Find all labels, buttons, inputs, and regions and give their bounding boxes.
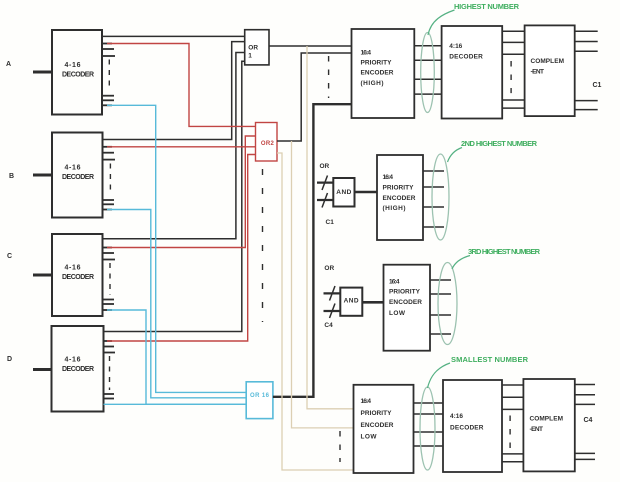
ellipsis dashed left of encoder4 — [339, 431, 341, 462]
svg-text:16:4: 16:4 — [389, 278, 400, 285]
svg-text:SMALLEST NUMBER: SMALLEST NUMBER — [451, 355, 529, 364]
ellipsis dashed row1 between U6 and U7 — [510, 61, 512, 93]
priority encoder U5 (16:4 HIGH, row1) — [352, 29, 415, 118]
complement U12 (row4) — [523, 379, 574, 471]
U4 pin ellipsis dashed — [109, 356, 111, 390]
wire U4 red riser to OR2 input4 — [107, 155, 256, 342]
svg-text:4-16: 4-16 — [65, 165, 81, 172]
bus ellipse row1 — [421, 33, 435, 113]
svg-text:HIGHEST NUMBER: HIGHEST NUMBER — [454, 2, 520, 11]
wire U1 pin1 to OR1 input1 — [102, 35, 245, 37]
decoder U2 (4-16 DECODER, input B) — [52, 133, 103, 218]
svg-text:(HIGH): (HIGH) — [361, 80, 384, 87]
svg-text:C4: C4 — [584, 417, 593, 424]
svg-text:C4: C4 — [324, 322, 333, 329]
bus ellipse row2 — [432, 154, 449, 240]
U1 pin ellipsis dashed — [108, 60, 110, 92]
U2 pin ellipsis dashed — [109, 164, 111, 196]
wire U3 cyan to OR16 input3 — [107, 310, 246, 404]
svg-text:DECODER: DECODER — [62, 274, 94, 281]
input wire D — [33, 368, 52, 371]
wire U1 red to OR2 input1 — [107, 44, 256, 127]
callout curve row2 — [448, 148, 463, 163]
svg-text:1: 1 — [248, 53, 252, 60]
U5 output wires — [414, 46, 441, 94]
wire U2 cyan to OR16 input2 — [107, 210, 246, 398]
svg-text:DECODER: DECODER — [62, 174, 94, 181]
input wire B — [33, 174, 52, 177]
U1 output pin stubs — [102, 44, 115, 106]
wire U2 pin1 riser to OR1 input2 — [103, 42, 245, 140]
wire OR16 output riser to encoder1 — [273, 104, 352, 397]
svg-text:COMPLEM: COMPLEM — [530, 416, 564, 423]
and-gate AND2 — [340, 288, 362, 316]
svg-text:OR: OR — [320, 163, 330, 170]
decoder U6 (4:16, row1) — [442, 26, 503, 119]
wire U2 red to OR2 input3 — [107, 146, 256, 148]
svg-text:AND: AND — [344, 297, 359, 304]
and-gate AND2 input wires with bus slashes — [324, 293, 341, 311]
svg-text:LOW: LOW — [389, 310, 406, 317]
callout curve row1 — [428, 10, 455, 35]
wire AND2 output to encoder U9 — [362, 301, 383, 304]
U7 output wires — [575, 31, 598, 109]
svg-text:ENCODER: ENCODER — [361, 69, 394, 76]
svg-text:OR: OR — [324, 265, 334, 272]
U10 output wires — [414, 403, 443, 446]
decoder U11 (4:16, row4) — [443, 380, 502, 472]
wire U4 pin1 riser to OR1 input4 — [104, 61, 245, 331]
svg-text:PRIORITY: PRIORITY — [361, 59, 393, 66]
wire U3 pin1 riser to OR1 input3 — [103, 53, 245, 239]
ellipsis dashed left of encoder1 — [328, 56, 330, 98]
bus ellipse row4 — [420, 387, 435, 470]
svg-text:PRIORITY: PRIORITY — [389, 289, 421, 296]
svg-text:ENCODER: ENCODER — [361, 422, 394, 429]
wires U11 to complement U12 — [502, 385, 523, 462]
svg-text:B: B — [9, 173, 14, 180]
wire U3 red riser to OR2 input2 — [107, 136, 256, 248]
wire U1 cyan to OR16 input1 — [107, 105, 246, 392]
U2 output pin stubs — [103, 147, 116, 210]
priority encoder U9 (16:4 LOW, row3) — [384, 265, 431, 351]
U8 output stubs — [423, 171, 444, 227]
ellipsis dashed below OR2 (OR3..OR15) — [262, 169, 264, 322]
wire U4 cyan to OR16 input4 — [104, 403, 247, 405]
or-gate OR2 — [256, 123, 278, 162]
svg-text:LOW: LOW — [361, 434, 378, 441]
svg-text:16:4: 16:4 — [383, 174, 394, 181]
tan wire OR2 branch to encoder4 — [292, 141, 354, 428]
svg-text:3RD HIGHEST NUMBER: 3RD HIGHEST NUMBER — [468, 247, 541, 256]
svg-text:16:4: 16:4 — [361, 398, 372, 405]
svg-text:-ENT: -ENT — [531, 69, 545, 76]
svg-text:4-16: 4-16 — [65, 357, 81, 364]
svg-text:4:16: 4:16 — [450, 413, 463, 420]
svg-text:DECODER: DECODER — [62, 366, 94, 373]
svg-text:DECODER: DECODER — [62, 72, 94, 79]
or-gate OR1 — [245, 30, 269, 65]
wires U6 to complement U7 — [502, 31, 524, 108]
svg-text:4:16: 4:16 — [449, 43, 462, 50]
svg-text:2ND HIGHEST NUMBER: 2ND HIGHEST NUMBER — [461, 139, 538, 148]
svg-text:A: A — [6, 61, 11, 68]
svg-text:DECODER: DECODER — [449, 54, 483, 61]
U12 output wires — [575, 385, 595, 460]
svg-text:OR2: OR2 — [261, 141, 275, 147]
input wire C — [33, 274, 52, 277]
svg-text:OR: OR — [248, 45, 258, 52]
bus ellipse row3 — [438, 263, 457, 345]
svg-text:OR 16: OR 16 — [250, 393, 270, 399]
wire AND1 output to encoder U8 — [355, 191, 378, 194]
or-gate OR16 — [246, 382, 273, 419]
svg-text:DECODER: DECODER — [450, 425, 484, 432]
decoder U1 (4-16 DECODER, input A) — [52, 30, 102, 115]
U3 output pin stubs — [103, 248, 116, 311]
svg-text:AND: AND — [336, 189, 351, 196]
svg-text:COMPLEM: COMPLEM — [531, 58, 565, 65]
priority encoder U8 (16:4 HIGH, row2) — [377, 155, 423, 240]
callout curve row3 — [452, 256, 470, 270]
decoder U3 (4-16 DECODER, input C) — [52, 234, 103, 316]
U9 output stubs — [430, 280, 451, 334]
U3 pin ellipsis dashed — [109, 263, 111, 295]
svg-text:ENCODER: ENCODER — [383, 195, 416, 202]
wire OR2 output riser to encoder1 — [277, 53, 352, 141]
svg-text:-ENT: -ENT — [530, 426, 544, 433]
tan wire OR2 lower branch to encoder4 — [277, 153, 354, 470]
priority encoder U10 (16:4 LOW, row4) — [354, 385, 414, 473]
wire OR1 output to encoder1 — [269, 45, 352, 47]
svg-text:C1: C1 — [326, 219, 335, 226]
svg-text:D: D — [7, 356, 12, 363]
svg-text:ENCODER: ENCODER — [389, 299, 422, 306]
tan wire OR1 branch to encoder4 — [307, 46, 354, 409]
decoder U4 (4-16 DECODER, input D) — [52, 326, 104, 412]
complement U7 (row1) — [525, 25, 575, 116]
svg-text:PRIORITY: PRIORITY — [383, 184, 415, 191]
svg-text:4-16: 4-16 — [65, 62, 81, 69]
svg-text:4-16: 4-16 — [65, 265, 81, 272]
svg-text:C: C — [7, 253, 12, 260]
ellipsis dashed row4 between U11 and U12 — [509, 416, 511, 449]
svg-text:16:4: 16:4 — [361, 50, 372, 57]
input wire A — [33, 71, 52, 74]
and-gate AND1 — [333, 178, 354, 207]
svg-text:PRIORITY: PRIORITY — [361, 410, 393, 417]
svg-text:(HIGH): (HIGH) — [383, 205, 406, 212]
callout curve row4 — [428, 363, 451, 388]
U4 output pin stubs — [104, 341, 116, 399]
svg-text:C1: C1 — [593, 82, 602, 89]
and-gate AND1 input wires with bus slashes — [317, 183, 333, 200]
